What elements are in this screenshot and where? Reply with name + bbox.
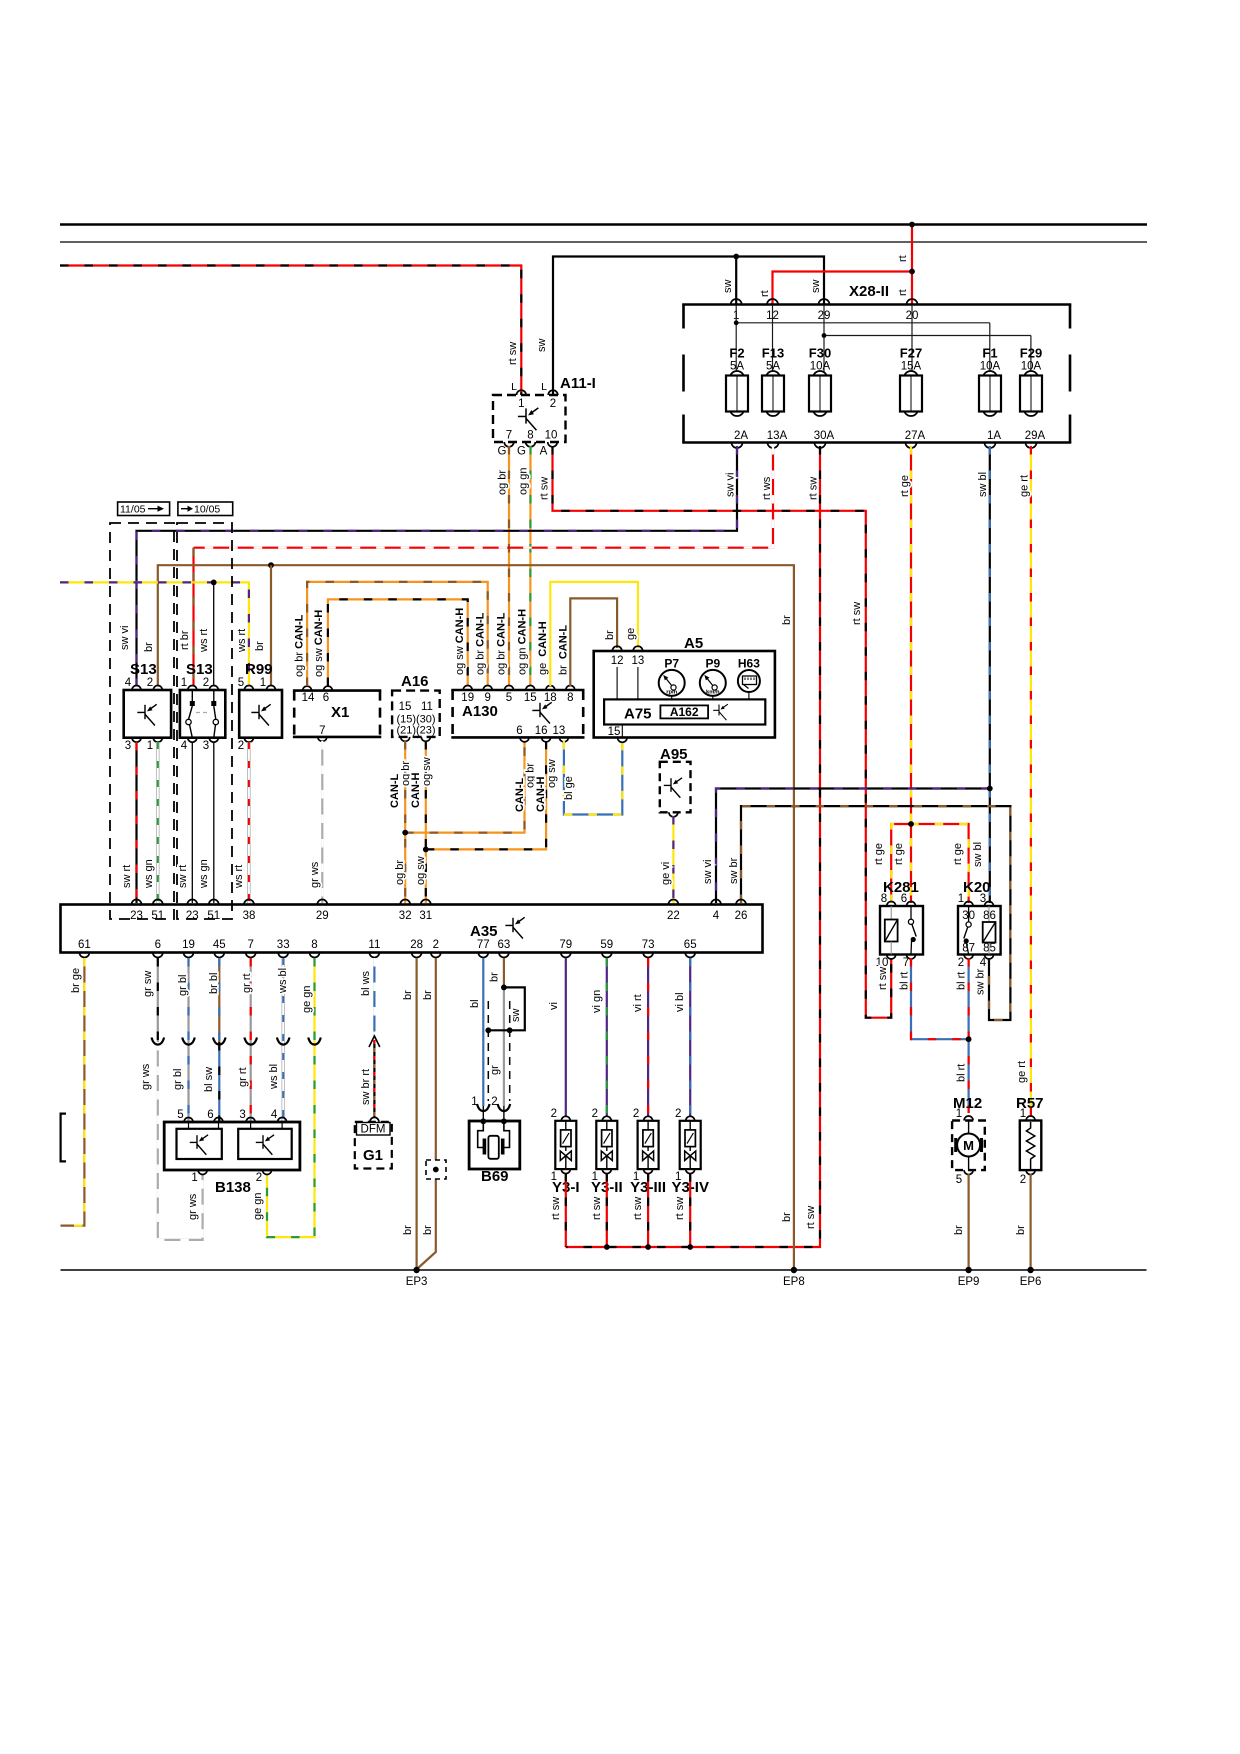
svg-text:8: 8	[567, 692, 573, 704]
svg-text:ge gn: ge gn	[252, 1192, 264, 1220]
svg-text:og gn: og gn	[518, 467, 530, 495]
svg-text:og sw CAN-H: og sw CAN-H	[313, 610, 325, 677]
svg-text:br: br	[143, 642, 155, 652]
svg-text:bl: bl	[469, 999, 481, 1008]
ground EP8	[791, 1267, 797, 1273]
svg-text:5A: 5A	[730, 361, 744, 373]
svg-text:EP3: EP3	[406, 1276, 428, 1288]
svg-text:5: 5	[177, 1109, 183, 1121]
svg-text:33: 33	[277, 939, 290, 951]
svg-text:77: 77	[477, 939, 490, 951]
svg-text:16: 16	[535, 725, 548, 737]
svg-text:G: G	[517, 446, 526, 458]
wire rt sw: A11-I pin10 down right down to K281 pin 10	[553, 446, 892, 1018]
svg-text:9: 9	[484, 692, 490, 704]
svg-text:rt sw: rt sw	[632, 1197, 644, 1220]
svg-text:2: 2	[958, 957, 964, 969]
svg-text:sw vi: sw vi	[725, 473, 737, 497]
svg-text:15A: 15A	[901, 361, 922, 373]
svg-text:A35: A35	[470, 923, 498, 940]
svg-text:sw: sw	[810, 280, 822, 294]
switch contacts	[191, 690, 193, 701]
svg-text:A5: A5	[684, 635, 703, 652]
svg-text:13A: 13A	[767, 430, 788, 442]
svg-text:B69: B69	[481, 1168, 509, 1185]
fuse F13 5A	[766, 371, 780, 385]
svg-text:2: 2	[550, 398, 556, 410]
svg-text:L: L	[511, 381, 517, 393]
svg-text:5A: 5A	[766, 361, 780, 373]
svg-text:G1: G1	[363, 1147, 383, 1164]
wire ws gn S13 pin1 to A35 pin51	[156, 742, 160, 903]
wire rt ws F13 to left	[194, 446, 774, 548]
svg-text:sw rt: sw rt	[177, 865, 189, 888]
svg-text:F29: F29	[1020, 346, 1042, 361]
wire sw br: K20 pin4 loop to A35 pin26	[741, 806, 1010, 1020]
solenoid valve Y3-II	[606, 958, 608, 1116]
svg-text:rt ge: rt ge	[873, 843, 885, 865]
svg-text:EP8: EP8	[783, 1276, 805, 1288]
wire rt sw F30 down to Y3 bus	[566, 446, 820, 1247]
svg-text:10A: 10A	[1021, 361, 1042, 373]
svg-text:br: br	[489, 972, 501, 982]
svg-text:19: 19	[182, 939, 195, 951]
variant box 10/05	[178, 502, 233, 516]
svg-text:2: 2	[675, 1108, 681, 1120]
svg-text:2: 2	[147, 677, 153, 689]
wire rt ge branches to K281 pin8 and K20 pin1	[891, 824, 968, 903]
wire rt br down to S13 II pin1	[192, 548, 194, 685]
svg-text:2: 2	[1020, 1174, 1026, 1186]
dashed variant enclosure 2	[177, 523, 232, 919]
svg-text:15: 15	[399, 701, 412, 713]
svg-text:7: 7	[903, 957, 909, 969]
svg-text:rt sw: rt sw	[851, 602, 863, 625]
wire og br CAN-L A16 pin15 to A130 pin6 and A35 pin32	[404, 741, 406, 903]
svg-text:30A: 30A	[814, 430, 835, 442]
svg-text:8: 8	[881, 893, 887, 905]
fuse F2 5A	[730, 371, 744, 385]
svg-text:10A: 10A	[810, 361, 831, 373]
svg-text:br: br	[953, 1225, 965, 1235]
svg-text:2: 2	[433, 939, 439, 951]
svg-text:6: 6	[323, 692, 329, 704]
svg-text:1: 1	[260, 677, 266, 689]
svg-text:ge CAN-H: ge CAN-H	[537, 621, 549, 675]
svg-text:5: 5	[506, 692, 512, 704]
svg-text:og sw: og sw	[421, 757, 433, 786]
svg-text:rpm: rpm	[666, 690, 677, 696]
wire: battery bus top	[60, 223, 1147, 226]
generator G1	[355, 1122, 392, 1169]
svg-text:15: 15	[608, 726, 621, 738]
svg-text:ge gn: ge gn	[301, 985, 313, 1013]
svg-text:rt: rt	[759, 290, 771, 297]
svg-text:1: 1	[181, 677, 187, 689]
svg-text:br: br	[422, 1225, 434, 1235]
variant box 11/05	[118, 502, 170, 516]
svg-text:br: br	[1015, 1225, 1027, 1235]
svg-text:6: 6	[901, 893, 907, 905]
svg-text:S13: S13	[130, 661, 157, 678]
wire sw rt S13 pin3 to A35 pin23	[135, 742, 137, 903]
svg-text:2: 2	[256, 1172, 262, 1184]
svg-text:gr ws: gr ws	[140, 1063, 152, 1090]
svg-text:45: 45	[213, 939, 226, 951]
svg-text:vi rt: vi rt	[632, 994, 644, 1012]
svg-text:79: 79	[559, 939, 572, 951]
svg-text:12: 12	[611, 655, 624, 667]
svg-text:vi bl: vi bl	[674, 992, 686, 1012]
svg-text:2: 2	[238, 740, 244, 752]
svg-text:B138: B138	[215, 1179, 251, 1196]
svg-text:L: L	[541, 381, 547, 393]
svg-text:2: 2	[592, 1108, 598, 1120]
wire og br CAN-L X1 pin14 to A130 pin9	[307, 582, 488, 686]
wire ws rt thin to S13-II pin2	[213, 582, 215, 685]
svg-text:gr sw: gr sw	[142, 971, 154, 997]
svg-text:18: 18	[544, 692, 557, 704]
svg-text:63: 63	[498, 939, 511, 951]
svg-text:DFM: DFM	[361, 1124, 386, 1136]
svg-text:og br CAN-L: og br CAN-L	[294, 614, 306, 677]
fuse F30 10A	[813, 371, 827, 385]
svg-text:M: M	[963, 1138, 974, 1153]
svg-text:23: 23	[130, 910, 143, 922]
svg-text:br CAN-L: br CAN-L	[558, 625, 570, 675]
svg-text:sw br rt: sw br rt	[360, 1069, 372, 1105]
svg-text:K20: K20	[963, 879, 991, 896]
module A75	[604, 699, 765, 724]
svg-text:59: 59	[600, 939, 613, 951]
svg-text:gr bl: gr bl	[172, 1069, 184, 1090]
K281 switch	[910, 906, 912, 920]
svg-text:br: br	[781, 1212, 793, 1222]
svg-text:1: 1	[1020, 1108, 1026, 1120]
svg-text:2: 2	[633, 1108, 639, 1120]
svg-text:29: 29	[316, 910, 329, 922]
svg-text:4: 4	[980, 957, 987, 969]
svg-text:1: 1	[191, 1172, 197, 1184]
svg-text:1: 1	[518, 398, 524, 410]
solenoid valve Y3-III	[647, 958, 649, 1116]
svg-text:8: 8	[527, 430, 533, 442]
svg-text:EP9: EP9	[958, 1276, 980, 1288]
svg-text:7: 7	[319, 725, 325, 737]
splice symbol	[426, 1160, 446, 1179]
solenoid valve Y3-I	[565, 958, 567, 1116]
svg-text:13: 13	[553, 725, 566, 737]
svg-text:19: 19	[461, 692, 474, 704]
wire: bus line 2	[60, 241, 1147, 243]
wire br ge A35 pin61 to left margin	[61, 958, 85, 1226]
wires sw rt / ws gn S13-II to A35	[191, 742, 193, 903]
fuse F27 15A	[904, 371, 918, 385]
svg-text:(21)(23): (21)(23)	[396, 725, 435, 737]
wire br R57 to EP6	[1029, 1174, 1031, 1270]
svg-text:rt ge: rt ge	[952, 843, 964, 865]
svg-text:sw bl: sw bl	[977, 472, 989, 497]
svg-text:br bl: br bl	[208, 973, 220, 994]
svg-text:og br: og br	[394, 860, 406, 885]
svg-text:10/05: 10/05	[194, 504, 220, 516]
wire bl rt K281 pin7 to junction	[911, 958, 969, 1039]
svg-text:og br CAN-L: og br CAN-L	[496, 612, 508, 675]
svg-text:11: 11	[368, 939, 380, 951]
connector X1	[293, 689, 381, 692]
svg-text:28: 28	[410, 939, 423, 951]
svg-text:G: G	[498, 446, 507, 458]
svg-text:ws bl: ws bl	[268, 1064, 280, 1090]
svg-text:bl rt: bl rt	[899, 972, 911, 990]
svg-text:rt sw: rt sw	[591, 1197, 603, 1220]
svg-text:gr: gr	[489, 1065, 501, 1075]
svg-text:11: 11	[421, 701, 433, 713]
svg-text:1: 1	[958, 893, 964, 905]
svg-text:A16: A16	[401, 673, 429, 690]
svg-text:26: 26	[735, 910, 748, 922]
svg-text:3: 3	[239, 1109, 245, 1121]
svg-text:ge rt: ge rt	[1019, 475, 1031, 497]
wire ws rt R99 pin2 to A35 pin38	[247, 742, 251, 903]
svg-text:rt sw: rt sw	[877, 967, 889, 990]
svg-text:6: 6	[516, 725, 522, 737]
wire sw vi F2 to S13 pin4	[137, 446, 738, 685]
wire ge vi A95 to A35 pin22	[672, 816, 674, 903]
svg-text:br: br	[604, 630, 616, 640]
svg-text:ws rt: ws rt	[198, 629, 210, 653]
svg-text:ws gn: ws gn	[143, 859, 155, 889]
svg-text:rt br: rt br	[179, 630, 191, 650]
svg-text:km/h: km/h	[706, 690, 720, 696]
svg-text:51: 51	[151, 910, 164, 922]
svg-text:4: 4	[713, 910, 720, 922]
svg-text:br: br	[781, 615, 793, 625]
svg-text:P7: P7	[664, 657, 679, 671]
ground EP3	[413, 1267, 419, 1273]
svg-text:1A: 1A	[987, 430, 1001, 442]
dashed variant enclosure 1	[110, 523, 174, 919]
svg-text:sw vi: sw vi	[119, 626, 131, 650]
wire ws rt (yellow/violet) from left margin to R99 pin5	[60, 582, 249, 685]
svg-text:1: 1	[147, 740, 153, 752]
bottom ground rail	[61, 1269, 1147, 1271]
svg-text:br: br	[402, 990, 414, 1000]
ground EP6	[1027, 1267, 1033, 1273]
svg-text:og br: og br	[497, 470, 509, 495]
control module A130	[451, 689, 584, 692]
svg-text:65: 65	[684, 939, 697, 951]
svg-text:sw rt: sw rt	[121, 865, 133, 888]
ground EP9	[965, 1267, 971, 1273]
svg-text:10: 10	[545, 430, 558, 442]
svg-text:5: 5	[956, 1174, 962, 1186]
svg-text:sw: sw	[722, 280, 734, 294]
svg-text:ge: ge	[625, 628, 637, 640]
svg-text:br: br	[254, 641, 266, 651]
svg-text:7: 7	[247, 939, 253, 951]
svg-text:gr ws: gr ws	[187, 1193, 199, 1220]
fuse F1 10A	[983, 371, 997, 385]
wire br A35 pin28 to EP3	[416, 958, 418, 1270]
svg-text:ws rt: ws rt	[236, 629, 248, 653]
K20 switch	[968, 906, 970, 922]
wire og br A11-I pin7 to A130 pin5	[508, 446, 510, 685]
svg-text:rt sw: rt sw	[550, 1197, 562, 1220]
svg-text:3: 3	[203, 740, 209, 752]
svg-text:X1: X1	[331, 704, 349, 721]
svg-text:ws bl: ws bl	[277, 968, 289, 994]
svg-text:rt sw: rt sw	[507, 342, 519, 365]
control module A35	[61, 905, 763, 953]
svg-text:rt ge: rt ge	[893, 843, 905, 865]
svg-text:bl rt: bl rt	[956, 1064, 968, 1082]
left margin component stub	[61, 1114, 66, 1162]
wire gr sw A35 pin6 / gr ws to B138 pin1	[157, 958, 159, 1042]
svg-text:A162: A162	[670, 705, 699, 719]
svg-text:8: 8	[311, 939, 317, 951]
svg-text:32: 32	[399, 910, 412, 922]
svg-text:F1: F1	[982, 346, 997, 361]
wire gr rt A35 pin7 to B138 pin3	[250, 958, 252, 1122]
svg-text:vi gn: vi gn	[591, 990, 603, 1013]
svg-text:X28-II: X28-II	[849, 283, 889, 300]
svg-text:29A: 29A	[1025, 430, 1046, 442]
svg-text:br ge: br ge	[70, 968, 82, 993]
svg-text:ge rt: ge rt	[1016, 1061, 1028, 1083]
wire rt sw from left margin to A11-I pin 1	[60, 266, 521, 396]
svg-text:13: 13	[632, 655, 645, 667]
wire og gn A11-I pin8 to A130 pin15	[529, 446, 531, 685]
svg-text:bl ge: bl ge	[563, 776, 575, 800]
svg-text:5: 5	[238, 677, 244, 689]
svg-text:61: 61	[78, 939, 91, 951]
wire og sw CAN-H A16 pin11 to A130 pin16 and A35 pin31	[425, 741, 427, 903]
svg-text:23: 23	[186, 910, 199, 922]
svg-text:ws gn: ws gn	[198, 859, 210, 889]
wire br drop to R99 pin1	[270, 565, 272, 685]
svg-text:S13: S13	[186, 661, 213, 678]
wire og sw CAN-H X1 pin6 to A130 pin19	[328, 599, 468, 686]
svg-text:rt: rt	[897, 289, 909, 296]
wire br A35 pin2 to EP3	[418, 958, 436, 1269]
wire br bl / bl sw A35 pin45 to B138 pin6	[218, 958, 220, 1042]
module A162	[660, 705, 708, 718]
svg-text:sw: sw	[536, 339, 548, 353]
svg-text:rt: rt	[897, 255, 909, 262]
svg-text:og sw: og sw	[415, 856, 427, 885]
wire gr ws X1 pin7 to A35 pin29	[321, 741, 323, 903]
sensor module B138	[164, 1122, 300, 1170]
svg-text:sw br: sw br	[975, 968, 987, 995]
wire sw: A11-I pin 2 to X28-II pins 1/29	[553, 257, 824, 396]
svg-text:rt ge: rt ge	[899, 475, 911, 497]
svg-text:4: 4	[271, 1109, 278, 1121]
svg-text:rt sw: rt sw	[539, 477, 551, 500]
wire rt: bus to X28-II pin 20/12	[911, 225, 913, 306]
svg-text:1: 1	[956, 1108, 962, 1120]
svg-text:3: 3	[980, 893, 986, 905]
svg-text:2: 2	[203, 677, 209, 689]
svg-text:sw vi: sw vi	[702, 860, 714, 884]
svg-text:gr ws: gr ws	[309, 861, 321, 888]
svg-text:15: 15	[524, 692, 537, 704]
svg-text:H63: H63	[738, 657, 760, 671]
wire rt ge F27 down to K281 pin6	[910, 446, 912, 903]
wire bl ws A35 pin11 to G1 DFM	[373, 958, 375, 1040]
svg-text:11/05: 11/05	[120, 504, 146, 516]
wire ge rt F29 to R57 pin1	[1030, 446, 1032, 1116]
svg-text:2: 2	[551, 1108, 557, 1120]
svg-text:38: 38	[243, 910, 256, 922]
svg-text:rt sw: rt sw	[674, 1197, 686, 1220]
svg-text:10A: 10A	[980, 361, 1001, 373]
K20 coil	[983, 922, 996, 943]
wire bl rt K20 pin2 to M12 pin1	[967, 958, 969, 1113]
screen sw loop	[488, 987, 525, 1030]
svg-text:og br CAN-L: og br CAN-L	[475, 612, 487, 675]
svg-text:gr bl: gr bl	[177, 975, 189, 996]
svg-text:br: br	[422, 990, 434, 1000]
svg-text:51: 51	[207, 910, 220, 922]
svg-text:P9: P9	[705, 657, 720, 671]
wire ge CAN-H A130 pin18 to A5 pin13	[550, 582, 638, 686]
svg-text:27A: 27A	[905, 430, 926, 442]
svg-text:gr rt: gr rt	[241, 973, 253, 993]
svg-text:F2: F2	[729, 346, 744, 361]
svg-text:EP6: EP6	[1020, 1276, 1042, 1288]
wire br M12 to EP9	[967, 1174, 969, 1270]
svg-text:og sw CAN-H: og sw CAN-H	[454, 608, 466, 675]
svg-text:3: 3	[125, 740, 131, 752]
wire br/gr A35 pin63 to B69 pin2 with screen	[503, 958, 505, 987]
svg-text:22: 22	[667, 910, 680, 922]
svg-text:bl sw: bl sw	[203, 1067, 215, 1092]
svg-text:14: 14	[302, 692, 315, 704]
svg-text:gr rt: gr rt	[237, 1067, 249, 1087]
svg-text:2: 2	[491, 1096, 497, 1108]
wire sw bl F1 to K20 pin3	[989, 446, 991, 903]
svg-text:rt sw: rt sw	[808, 477, 820, 500]
svg-text:A130: A130	[462, 703, 498, 720]
svg-text:4: 4	[181, 740, 188, 752]
svg-text:br: br	[402, 1225, 414, 1235]
svg-text:bl rt: bl rt	[956, 972, 968, 990]
wire sw vi: F1 junction to A35 pin4	[716, 789, 990, 904]
K281 coil	[890, 906, 892, 920]
svg-text:6: 6	[207, 1109, 213, 1121]
fuse F29 10A	[1024, 371, 1038, 385]
svg-text:6: 6	[155, 939, 161, 951]
svg-text:2A: 2A	[734, 430, 748, 442]
fusebox internal feed lines	[735, 305, 737, 373]
svg-text:F27: F27	[900, 346, 922, 361]
svg-text:sw: sw	[510, 1009, 522, 1023]
svg-text:rt ws: rt ws	[761, 476, 773, 500]
svg-text:A75: A75	[624, 706, 652, 723]
svg-text:A95: A95	[660, 746, 688, 763]
svg-text:73: 73	[642, 939, 655, 951]
svg-text:vi: vi	[548, 1002, 560, 1010]
svg-text:31: 31	[419, 910, 432, 922]
wire gr bl A35 pin19 to B138 pin5	[187, 958, 189, 1122]
svg-text:A: A	[540, 446, 548, 458]
svg-text:rt sw: rt sw	[805, 1206, 817, 1229]
svg-text:4: 4	[125, 677, 132, 689]
svg-text:bl ws: bl ws	[360, 970, 372, 996]
wire bl ge A130 pin13 to A5 pin15	[564, 741, 622, 815]
svg-text:A11-I: A11-I	[560, 375, 596, 392]
